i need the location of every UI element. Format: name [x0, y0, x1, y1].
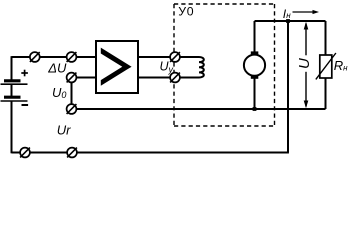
junction node on top rail: [286, 19, 290, 23]
junction node on middle wire: [253, 107, 257, 111]
voltage arrow U: [304, 22, 309, 108]
wire: right edge with load: [325, 21, 327, 109]
amplifier U1 gain symbol: [101, 48, 132, 86]
terminal T5 amplifier output 1: [170, 52, 180, 62]
terminal T6 amplifier output 2: [170, 73, 180, 83]
terminal T3 amplifier input 2: [67, 73, 77, 83]
wire: top input wire (battery + to amplifier input 1): [12, 56, 97, 58]
wire: bottom rail: [12, 152, 289, 154]
dashed enclosure box У0: [174, 4, 275, 126]
battery minus sign: [22, 104, 29, 106]
resistor RH adjustment slash: [316, 53, 336, 79]
battery GB1 cell2 negative plate: [4, 96, 21, 99]
coil L (control winding): [199, 57, 204, 78]
wire: motor top lead: [254, 21, 256, 54]
wire: battery mid lead: [11, 84, 13, 96]
battery GB1 cell1 negative plate: [4, 79, 21, 82]
battery GB1 cell1 positive plate: [1, 83, 28, 85]
wire: amplifier output 1 to coil top: [138, 56, 199, 58]
motor M top brush: [251, 51, 258, 54]
wire: middle feedback wire: [72, 108, 326, 110]
wire: battery top lead: [11, 56, 13, 79]
svg-text:Ur: Ur: [57, 123, 71, 138]
wire: amplifier output 2 to coil bottom: [138, 77, 199, 79]
terminal T2 on top wire: [67, 52, 77, 62]
wire: feedback vertical to bottom rail: [287, 21, 289, 153]
wire: motor bottom lead: [254, 76, 256, 109]
terminal T4 middle wire: [67, 104, 77, 114]
svg-text:U: U: [296, 58, 313, 69]
svg-text:ΔU: ΔU: [47, 61, 67, 76]
wire: amplifier input 2: [72, 77, 97, 79]
wire: vertical jumper between terminals: [71, 78, 73, 110]
terminal T8 bottom rail right: [67, 148, 77, 158]
motor M bottom brush: [251, 76, 258, 79]
motor M armature circle: [244, 55, 265, 76]
terminal T1 on top wire: [30, 52, 40, 62]
amplifier U1 box: [96, 41, 138, 93]
terminal T7 bottom rail left: [20, 148, 30, 158]
battery plus sign: [21, 70, 28, 77]
resistor RH body: [320, 55, 332, 78]
current arrow IH: [293, 10, 320, 14]
battery GB1 cell2 positive plate: [1, 100, 28, 102]
svg-text:У0: У0: [178, 5, 194, 19]
wire: battery bottom lead down to bottom rail: [11, 101, 13, 153]
wire: top rail: [255, 20, 326, 22]
